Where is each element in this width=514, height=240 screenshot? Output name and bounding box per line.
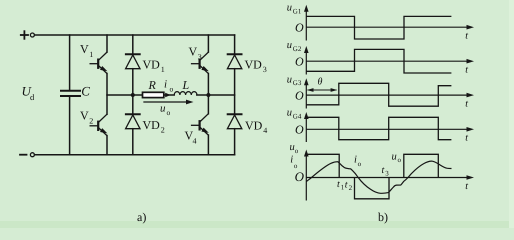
svg-text:u: u bbox=[392, 152, 397, 163]
svg-text:O: O bbox=[295, 55, 304, 69]
svg-text:G4: G4 bbox=[293, 113, 302, 121]
svg-text:C: C bbox=[81, 83, 90, 98]
svg-text:V: V bbox=[80, 109, 89, 123]
svg-text:u: u bbox=[160, 103, 166, 115]
svg-text:2: 2 bbox=[89, 117, 93, 126]
svg-text:1: 1 bbox=[161, 65, 165, 74]
svg-text:t: t bbox=[345, 179, 348, 190]
svg-text:VD: VD bbox=[245, 57, 263, 71]
svg-text:i: i bbox=[290, 155, 293, 166]
svg-text:3: 3 bbox=[263, 65, 267, 74]
svg-text:VD: VD bbox=[245, 119, 263, 133]
svg-text:d: d bbox=[30, 92, 35, 102]
svg-text:VD: VD bbox=[143, 118, 161, 132]
svg-text:u: u bbox=[287, 40, 292, 51]
svg-text:O: O bbox=[295, 21, 304, 35]
svg-text:t: t bbox=[465, 30, 468, 41]
svg-text:o: o bbox=[295, 147, 299, 155]
svg-text:a): a) bbox=[137, 210, 146, 224]
svg-text:R: R bbox=[148, 78, 157, 92]
svg-text:V: V bbox=[80, 42, 89, 56]
svg-text:u: u bbox=[287, 108, 292, 119]
svg-text:o: o bbox=[170, 85, 174, 94]
svg-text:4: 4 bbox=[263, 126, 267, 135]
svg-text:L: L bbox=[182, 78, 190, 92]
svg-text:4: 4 bbox=[193, 137, 197, 146]
svg-text:V: V bbox=[189, 45, 198, 59]
svg-text:3: 3 bbox=[385, 170, 389, 178]
svg-text:1: 1 bbox=[89, 50, 93, 59]
svg-text:t: t bbox=[465, 64, 468, 75]
svg-text:t: t bbox=[465, 98, 468, 109]
svg-text:O: O bbox=[295, 89, 304, 103]
svg-text:i: i bbox=[354, 155, 357, 166]
svg-text:G2: G2 bbox=[293, 45, 302, 53]
svg-text:u: u bbox=[287, 74, 292, 85]
svg-text:o: o bbox=[167, 108, 171, 117]
svg-text:i: i bbox=[164, 79, 167, 91]
svg-text:t: t bbox=[382, 165, 385, 176]
svg-text:2: 2 bbox=[349, 184, 353, 192]
svg-text:G1: G1 bbox=[293, 8, 302, 16]
svg-text:3: 3 bbox=[198, 53, 202, 62]
svg-text:O: O bbox=[295, 169, 305, 184]
svg-text:θ: θ bbox=[318, 77, 323, 88]
svg-text:o: o bbox=[358, 160, 362, 168]
svg-text:t: t bbox=[465, 133, 468, 144]
svg-text:G3: G3 bbox=[293, 79, 302, 87]
svg-text:2: 2 bbox=[161, 126, 165, 135]
svg-text:o: o bbox=[398, 156, 402, 164]
svg-text:t: t bbox=[337, 179, 340, 190]
svg-text:b): b) bbox=[378, 210, 388, 224]
svg-text:VD: VD bbox=[143, 57, 161, 71]
svg-text:O: O bbox=[295, 123, 304, 137]
svg-text:u: u bbox=[287, 3, 292, 14]
svg-text:t: t bbox=[465, 181, 468, 192]
